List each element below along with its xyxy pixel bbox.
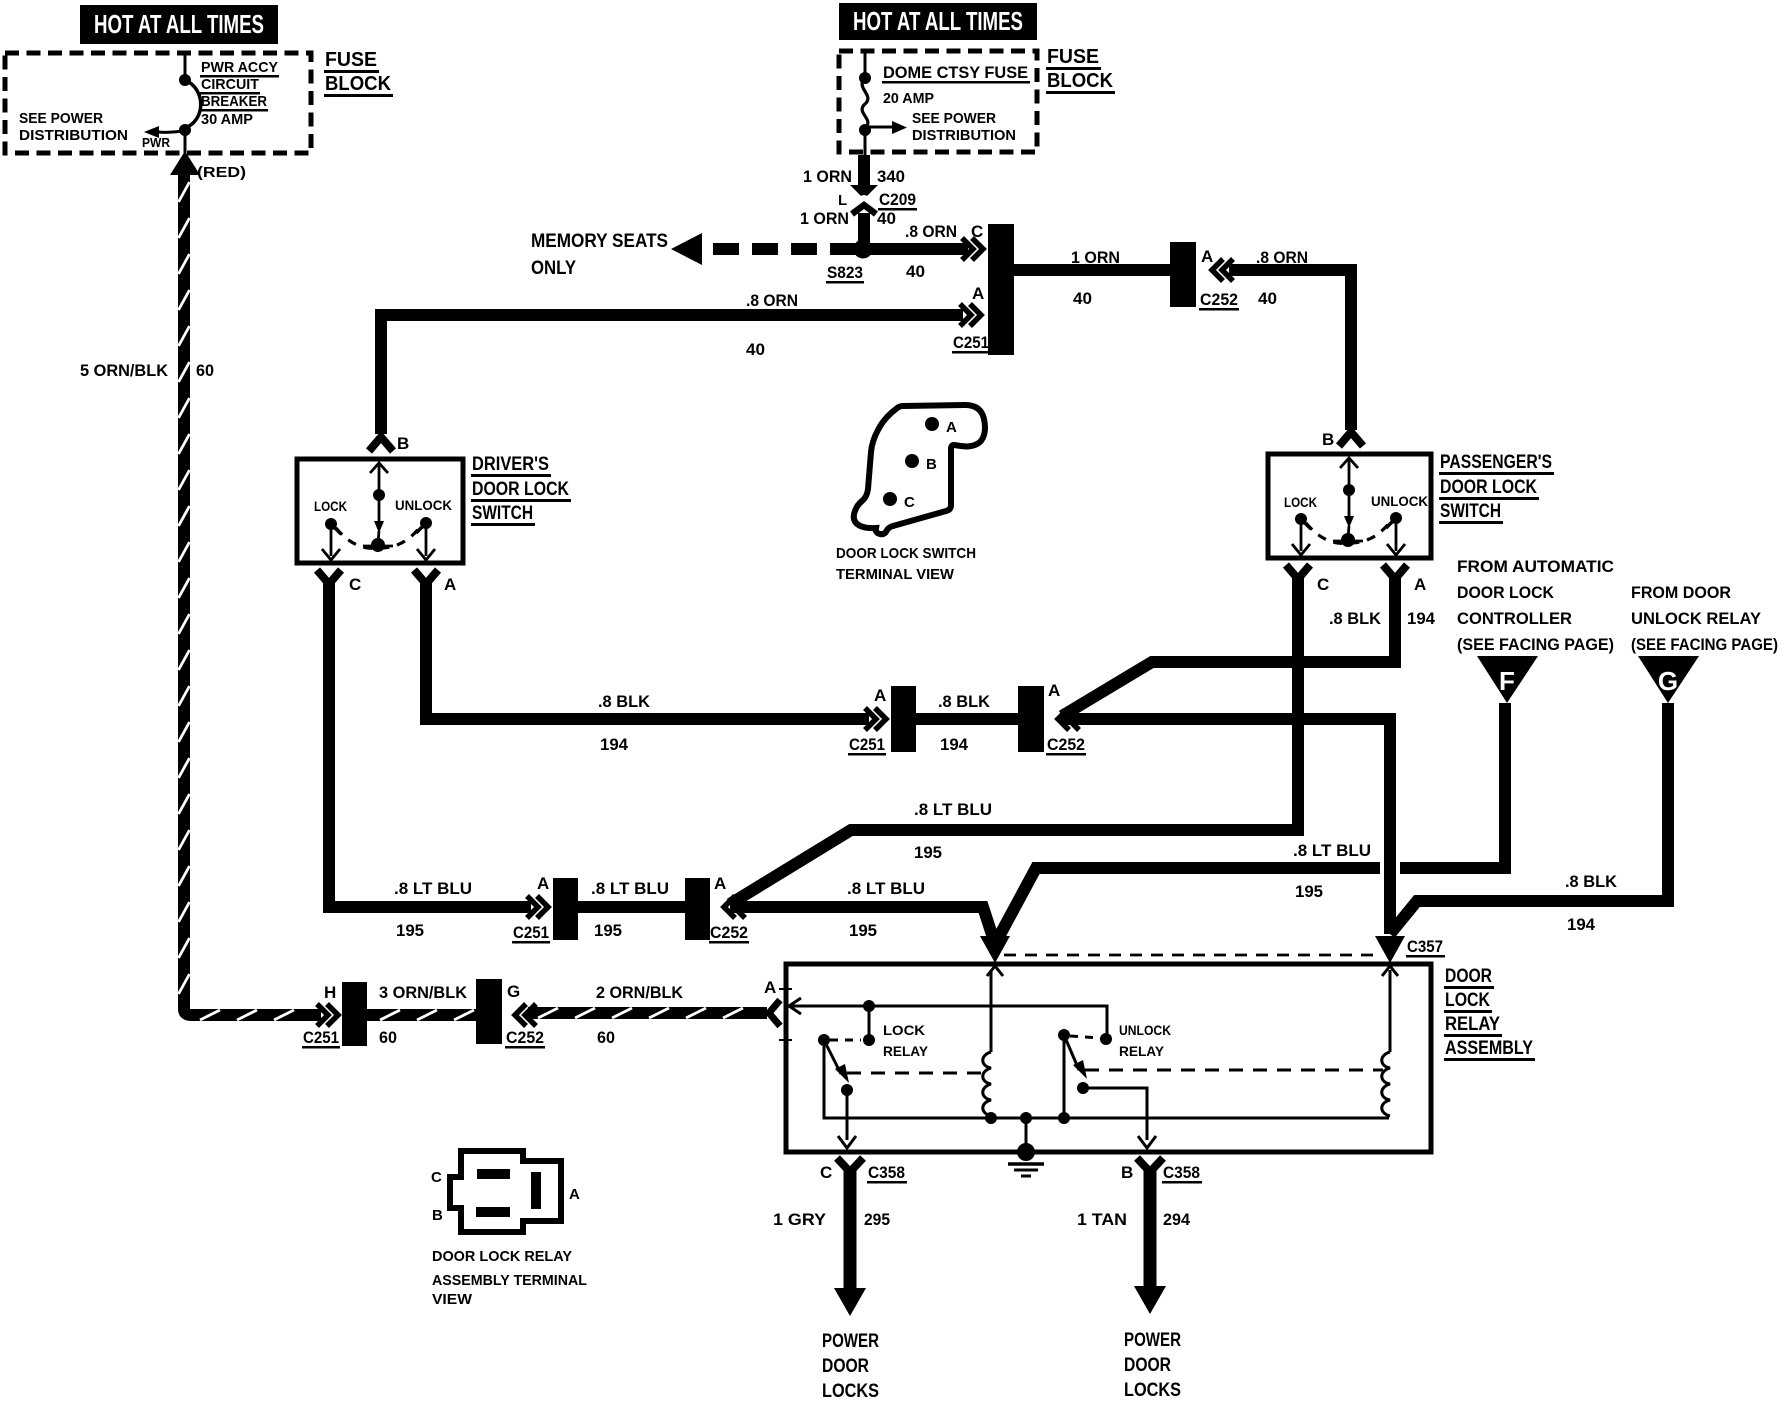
svg-text:A: A [946, 419, 957, 436]
svg-text:A: A [764, 978, 776, 997]
splice S823 [854, 240, 873, 259]
svg-text:.8 LT BLU: .8 LT BLU [1293, 841, 1371, 860]
connector C252 (194 inline) [1018, 686, 1044, 752]
unlock relay coil [1382, 966, 1398, 1116]
labels LOCK / UNLOCK (passenger) [1284, 493, 1428, 510]
svg-text:C252: C252 [506, 1028, 544, 1047]
labels LOCK / UNLOCK (driver) [314, 497, 452, 514]
svg-text:DOOR LOCK: DOOR LOCK [1457, 583, 1555, 602]
wire .8 ORN 40 S823 to C251 pin C [863, 243, 968, 255]
svg-text:FUSE: FUSE [325, 49, 377, 71]
wire .8 ORN 40 C251-A to driver switch B [381, 315, 963, 434]
svg-text:SEE POWER: SEE POWER [19, 110, 103, 127]
svg-text:C358: C358 [1163, 1163, 1200, 1182]
lock relay armature [818, 1034, 861, 1148]
svg-text:DOOR LOCK: DOOR LOCK [472, 479, 569, 500]
label .8 ORN 40 (driver B feed) [746, 291, 798, 359]
svg-text:B: B [432, 1207, 443, 1224]
C358 exit C: splay, wire 1 GRY 295, arrow [834, 1158, 866, 1316]
svg-text:C: C [431, 1169, 442, 1186]
svg-text:C252: C252 [710, 923, 748, 942]
svg-text:A: A [444, 575, 456, 594]
label .8 BLK 194 (G wire) [1565, 872, 1618, 934]
svg-text:DRIVER'S: DRIVER'S [472, 454, 549, 475]
label PWR ACCY CIRCUIT BREAKER 30 AMP [200, 59, 279, 128]
svg-text:40: 40 [1258, 289, 1277, 308]
svg-text:UNLOCK: UNLOCK [1119, 1022, 1171, 1038]
HOT AT ALL TIMES banner (right) [839, 3, 1037, 40]
labels C / C358 (left) [820, 1163, 907, 1184]
pin A chevrons into C252 (from right) [1212, 259, 1233, 281]
svg-text:194: 194 [1567, 915, 1596, 934]
lock pivot to ground bus [824, 1046, 1389, 1118]
svg-text:295: 295 [864, 1210, 890, 1229]
label POWER DOOR LOCKS (right) [1124, 1330, 1181, 1401]
svg-text:195: 195 [849, 921, 877, 940]
label .8 BLK 194 (driver segment) [598, 692, 651, 754]
svg-text:60: 60 [379, 1028, 397, 1047]
relay box A entry splay [769, 1000, 780, 1026]
svg-text:C252: C252 [1200, 290, 1238, 309]
wire .8 LT BLU 195 driver C to C251 [329, 582, 531, 907]
svg-text:DOME CTSY FUSE: DOME CTSY FUSE [883, 63, 1028, 82]
svg-text:20 AMP: 20 AMP [883, 90, 934, 107]
svg-text:PASSENGER'S: PASSENGER'S [1440, 452, 1552, 473]
label FUSE BLOCK (left) [324, 49, 393, 97]
ground symbol [1008, 1112, 1044, 1176]
svg-text:DOOR LOCK RELAY: DOOR LOCK RELAY [432, 1248, 572, 1265]
wire .8 LT BLU 195 from F down and left to relay entry [995, 703, 1505, 944]
label G / C252 [505, 982, 545, 1049]
svg-text:H: H [324, 983, 336, 1002]
connector C251 (195 inline) [553, 878, 578, 940]
svg-text:HOT AT ALL TIMES: HOT AT ALL TIMES [853, 6, 1023, 36]
svg-text:C: C [349, 575, 361, 594]
wire .8 BLK 194 C251-C252 [916, 713, 1018, 725]
label DOOR LOCK RELAY ASSEMBLY TERMINAL VIEW [432, 1248, 587, 1308]
svg-text:C357: C357 [1407, 937, 1443, 956]
svg-text:BLOCK: BLOCK [325, 73, 392, 95]
label .8 LT BLU 195 (passenger C wire) [914, 800, 992, 862]
svg-text:B: B [1121, 1163, 1133, 1182]
fuse block (right, dashed border) [839, 51, 1037, 152]
svg-text:DISTRIBUTION: DISTRIBUTION [19, 127, 128, 144]
svg-text:3 ORN/BLK: 3 ORN/BLK [379, 983, 468, 1002]
svg-text:C: C [904, 494, 915, 511]
wire 3 ORN/BLK C251-C252 [367, 1009, 478, 1021]
svg-text:195: 195 [914, 843, 942, 862]
wire 5 ORN/BLK 60 (hatched vertical + corner) [184, 170, 198, 1015]
wire 2 ORN/BLK C252 to relay A entry [528, 1007, 767, 1019]
svg-text:BREAKER: BREAKER [201, 93, 267, 110]
wire .8 LT BLU 195 C251-C252 [578, 901, 685, 913]
fuse block (left, dashed border) [5, 53, 311, 153]
triangle F (from automatic door lock controller) [1477, 656, 1538, 703]
label .8 LT BLU 195 (F wire) [1293, 841, 1371, 901]
svg-text:S823: S823 [827, 263, 863, 282]
label POWER DOOR LOCKS (left) [822, 1331, 879, 1402]
unlock relay armature [1058, 1029, 1156, 1148]
svg-text:1 ORN: 1 ORN [800, 209, 849, 228]
svg-text:C251: C251 [513, 923, 549, 942]
svg-text:A: A [874, 686, 886, 705]
svg-text:.8 ORN: .8 ORN [746, 291, 798, 310]
label LOCK RELAY [883, 1022, 929, 1059]
svg-text:SEE POWER: SEE POWER [912, 110, 996, 127]
pin A chevrons into C251 (195) [527, 874, 549, 918]
label UNLOCK RELAY [1119, 1022, 1171, 1059]
label .8 ORN 40 (passenger B feed) [1256, 248, 1308, 308]
pin A chevrons into C252 (from right) [1058, 708, 1079, 730]
label DRIVERS DOOR LOCK SWITCH [471, 454, 571, 526]
label DOOR LOCK RELAY ASSEMBLY [1444, 966, 1535, 1061]
svg-text:195: 195 [594, 921, 622, 940]
triangle G (from door unlock relay) [1638, 656, 1699, 703]
connector C251 (ORN/BLK inline) [342, 982, 367, 1046]
svg-text:A: A [972, 284, 984, 303]
label PASSENGERS DOOR LOCK SWITCH [1439, 452, 1554, 524]
label .8 LT BLU 195 (driver segment) [394, 879, 472, 940]
pin A chevrons into C251 (194) [865, 686, 886, 730]
label 2 ORN/BLK 60 [596, 983, 684, 1047]
svg-text:CIRCUIT: CIRCUIT [201, 76, 259, 93]
svg-text:LOCK: LOCK [883, 1022, 925, 1038]
svg-text:F: F [1499, 666, 1515, 696]
svg-text:CONTROLLER: CONTROLLER [1457, 609, 1572, 628]
unlock pivot to ground bus [1058, 1041, 1070, 1124]
svg-text:DOOR: DOOR [1124, 1355, 1171, 1376]
svg-text:1 GRY: 1 GRY [773, 1210, 827, 1229]
svg-text:60: 60 [196, 361, 214, 380]
svg-text:.8 BLK: .8 BLK [938, 692, 991, 711]
svg-text:RELAY: RELAY [1119, 1043, 1165, 1059]
wire tip arrow into fuse block [170, 151, 200, 175]
svg-text:SWITCH: SWITCH [1440, 501, 1501, 522]
connector C209 symbol [850, 185, 878, 214]
wire 1 ORN 340 fuse to C209 [858, 155, 870, 187]
svg-text:SWITCH: SWITCH [472, 503, 533, 524]
label 1 ORN 340 [803, 167, 905, 186]
driver C terminal splay [317, 570, 341, 584]
svg-text:.8 LT BLU: .8 LT BLU [914, 800, 992, 819]
label S823 [826, 263, 864, 284]
label A / C252 [1199, 247, 1239, 311]
wire .8 LT BLU 195 C252 to relay box entry [730, 907, 995, 944]
driver door lock switch box [297, 459, 463, 563]
door lock relay assembly terminal view connector [431, 1151, 580, 1232]
svg-text:30 AMP: 30 AMP [201, 111, 253, 128]
relay internal A feed line with left arrowhead [779, 989, 1107, 1040]
svg-text:.8 LT BLU: .8 LT BLU [394, 879, 472, 898]
svg-text:.8 ORN: .8 ORN [905, 222, 957, 241]
svg-text:C358: C358 [868, 1163, 905, 1182]
svg-text:ASSEMBLY TERMINAL: ASSEMBLY TERMINAL [432, 1272, 587, 1289]
label C251 [302, 1028, 340, 1049]
svg-text:DOOR: DOOR [1445, 966, 1492, 987]
pin A chevrons into C251 [960, 304, 981, 326]
svg-text:UNLOCK: UNLOCK [395, 497, 452, 513]
label 1 GRY 295 [773, 1210, 890, 1229]
svg-text:UNLOCK RELAY: UNLOCK RELAY [1631, 609, 1762, 628]
svg-text:.8 LT BLU: .8 LT BLU [847, 879, 925, 898]
svg-text:195: 195 [1295, 882, 1323, 901]
mechanical dashed links [847, 1070, 1383, 1073]
svg-text:.8 ORN: .8 ORN [1256, 248, 1308, 267]
svg-text:194: 194 [1407, 609, 1436, 628]
wire to MEMORY SEATS (dashed) with arrow [671, 233, 856, 265]
white hatch slashes on ORN/BLK wires [179, 182, 744, 1020]
svg-text:A: A [537, 874, 549, 893]
text SEE POWER DISTRIBUTION (left) [19, 110, 128, 144]
passenger switch internals [1292, 458, 1405, 555]
driver A terminal splay [414, 570, 438, 584]
svg-text:PWR: PWR [142, 135, 171, 150]
wire .8 LT BLU 195 passenger C down, left, diagonal to C252 [730, 576, 1298, 904]
svg-text:C: C [1317, 575, 1329, 594]
svg-text:1 ORN: 1 ORN [803, 167, 852, 186]
relay box lock-side entry arrow [980, 936, 1010, 963]
connector C252 (top) [1170, 242, 1196, 307]
passenger C terminal splay [1286, 565, 1310, 579]
svg-text:194: 194 [600, 735, 629, 754]
label C251 [952, 333, 990, 354]
svg-text:RELAY: RELAY [883, 1043, 929, 1059]
svg-text:ONLY: ONLY [531, 258, 576, 279]
fuse DOME CTSY 20 AMP symbol [859, 51, 907, 155]
svg-text:40: 40 [1073, 289, 1092, 308]
passenger A terminal splay [1383, 565, 1407, 579]
door lock relay assembly box [786, 964, 1431, 1152]
svg-text:C251: C251 [303, 1028, 339, 1047]
svg-text:340: 340 [877, 167, 905, 186]
svg-text:A: A [1048, 681, 1060, 700]
wire 1 ORN 40 C251 to C252 [1014, 264, 1172, 276]
svg-text:FROM DOOR: FROM DOOR [1631, 583, 1731, 602]
label 1 ORN 40 [800, 209, 896, 228]
label A / C252 [1046, 681, 1086, 756]
svg-text:A: A [714, 874, 726, 893]
svg-text:HOT AT ALL TIMES: HOT AT ALL TIMES [94, 9, 264, 39]
svg-text:A: A [569, 1186, 580, 1203]
label .8 BLK 194 (middle) [938, 692, 991, 754]
label 3 ORN/BLK 60 [379, 983, 468, 1047]
svg-text:A: A [1201, 247, 1213, 266]
svg-text:(RED): (RED) [197, 164, 246, 181]
wire 1 ORN 40 C209 to S823 [858, 213, 870, 249]
svg-text:PWR ACCY: PWR ACCY [201, 59, 278, 76]
svg-text:C: C [971, 222, 983, 241]
svg-text:B: B [1322, 430, 1334, 449]
label .8 LT BLU 195 (middle) [591, 879, 669, 940]
driver B terminal splay [369, 437, 393, 451]
label L / C209 [838, 190, 917, 211]
svg-text:BLOCK: BLOCK [1047, 70, 1114, 92]
pin G chevrons into C252 (from right) [515, 1004, 536, 1026]
svg-text:.8 BLK: .8 BLK [1565, 872, 1618, 891]
connector C251 (194 inline) [891, 686, 916, 752]
svg-text:POWER: POWER [1124, 1330, 1181, 1351]
passenger B terminal splay [1339, 432, 1363, 446]
HOT AT ALL TIMES banner (left) [80, 5, 278, 44]
svg-text:ASSEMBLY: ASSEMBLY [1445, 1038, 1533, 1059]
svg-text:LOCK: LOCK [1284, 494, 1317, 510]
svg-text:C: C [820, 1163, 832, 1182]
svg-text:2 ORN/BLK: 2 ORN/BLK [596, 983, 684, 1002]
circuit breaker symbol PWR ACCY [144, 53, 201, 153]
labels .8 ORN / C / 40 [905, 222, 983, 281]
svg-text:60: 60 [597, 1028, 615, 1047]
label FUSE BLOCK (right) [1046, 46, 1115, 94]
label C251 [848, 735, 886, 756]
svg-text:POWER: POWER [822, 1331, 879, 1352]
svg-text:MEMORY SEATS: MEMORY SEATS [531, 231, 668, 252]
svg-text:1 TAN: 1 TAN [1077, 1210, 1127, 1229]
svg-text:194: 194 [940, 735, 969, 754]
svg-text:294: 294 [1163, 1210, 1191, 1229]
dashed link above relay box between entries [1004, 954, 1374, 957]
svg-text:40: 40 [906, 262, 925, 281]
connector C252 (ORN/BLK inline) [476, 979, 502, 1044]
svg-text:UNLOCK: UNLOCK [1371, 493, 1428, 509]
svg-text:40: 40 [877, 209, 896, 228]
svg-text:FROM AUTOMATIC: FROM AUTOMATIC [1457, 557, 1614, 576]
svg-text:.8 BLK: .8 BLK [1329, 609, 1382, 628]
svg-text:LOCKS: LOCKS [1124, 1380, 1181, 1401]
label DOOR LOCK SWITCH TERMINAL VIEW [836, 545, 976, 583]
svg-text:RELAY: RELAY [1445, 1014, 1500, 1035]
connector C357 entry arrow [1375, 936, 1405, 963]
label FROM DOOR UNLOCK RELAY (SEE FACING PAGE) [1631, 583, 1778, 654]
label C357 [1406, 937, 1445, 958]
passenger door lock switch box [1268, 454, 1431, 558]
svg-text:G: G [1658, 666, 1678, 696]
svg-text:(SEE FACING PAGE): (SEE FACING PAGE) [1457, 635, 1614, 654]
label FROM AUTOMATIC DOOR LOCK CONTROLLER (SEE FACING PAGE) [1457, 557, 1614, 654]
svg-text:G: G [507, 982, 520, 1001]
svg-text:195: 195 [396, 921, 424, 940]
label DOME CTSY FUSE / 20 AMP [882, 63, 1030, 107]
svg-text:1 ORN: 1 ORN [1071, 248, 1120, 267]
svg-text:40: 40 [746, 340, 765, 359]
text SEE POWER DISTRIBUTION (right) [912, 110, 1016, 144]
lock relay coil [983, 966, 1003, 1124]
svg-text:LOCKS: LOCKS [822, 1381, 879, 1402]
svg-text:C251: C251 [953, 333, 989, 352]
label MEMORY SEATS ONLY [531, 231, 668, 279]
svg-text:DISTRIBUTION: DISTRIBUTION [912, 127, 1016, 144]
connector C251 (top, tall bar) [988, 224, 1014, 355]
label 5 ORN/BLK 60 [80, 361, 214, 380]
wire .8 BLK 194 driver A to C251 [426, 582, 869, 719]
svg-text:VIEW: VIEW [432, 1291, 473, 1308]
label 1 TAN 294 [1077, 1210, 1191, 1229]
svg-text:(SEE FACING PAGE): (SEE FACING PAGE) [1631, 635, 1778, 654]
label .8 LT BLU 195 (to relay) [847, 879, 925, 940]
wire .8 BLK 194 passenger A down, left, diagonal to C252 [1062, 578, 1395, 716]
svg-text:FUSE: FUSE [1047, 46, 1099, 68]
svg-text:C251: C251 [849, 735, 885, 754]
svg-text:A: A [1414, 575, 1426, 594]
C358 exit B: splay, wire 1 TAN 294, arrow [1134, 1158, 1166, 1314]
svg-text:.8 LT BLU: .8 LT BLU [591, 879, 669, 898]
label 1 ORN 40 [1071, 248, 1120, 308]
svg-text:LOCK: LOCK [1445, 990, 1490, 1011]
svg-text:B: B [397, 434, 409, 453]
pin C chevrons into C251 [962, 238, 983, 260]
label A / C252 [709, 874, 749, 944]
pin A chevrons into C252 (from right) [724, 896, 745, 918]
svg-text:.8 BLK: .8 BLK [598, 692, 651, 711]
svg-text:DOOR LOCK SWITCH: DOOR LOCK SWITCH [836, 545, 976, 562]
wire .8 BLK 194 from G down and left to C357 [1390, 703, 1668, 934]
connector C252 (195 inline) [685, 878, 710, 940]
pin H chevrons into C251 [317, 983, 338, 1026]
label C251 [512, 923, 550, 944]
wire .8 BLK 194 from C252 right then down to C357 [1060, 719, 1390, 934]
wire .8 ORN 40 C252 to passenger switch B [1229, 270, 1351, 430]
svg-text:C252: C252 [1047, 735, 1085, 754]
node lock contact tap [863, 1000, 875, 1046]
svg-text:LOCK: LOCK [314, 498, 347, 514]
wire 3 ORN/BLK hatched corner to C251 [191, 1009, 321, 1021]
svg-text:5 ORN/BLK: 5 ORN/BLK [80, 361, 169, 380]
svg-text:DOOR: DOOR [822, 1356, 869, 1377]
door lock switch terminal view blob [854, 405, 985, 534]
driver switch internals [322, 463, 435, 560]
label .8 BLK 194 (passenger A wire) [1329, 609, 1436, 628]
svg-text:TERMINAL VIEW: TERMINAL VIEW [836, 566, 955, 583]
svg-text:L: L [838, 192, 847, 209]
svg-text:B: B [926, 456, 937, 473]
svg-text:DOOR LOCK: DOOR LOCK [1440, 477, 1537, 498]
svg-text:C209: C209 [879, 190, 916, 209]
labels B / C358 (right) [1121, 1163, 1202, 1184]
